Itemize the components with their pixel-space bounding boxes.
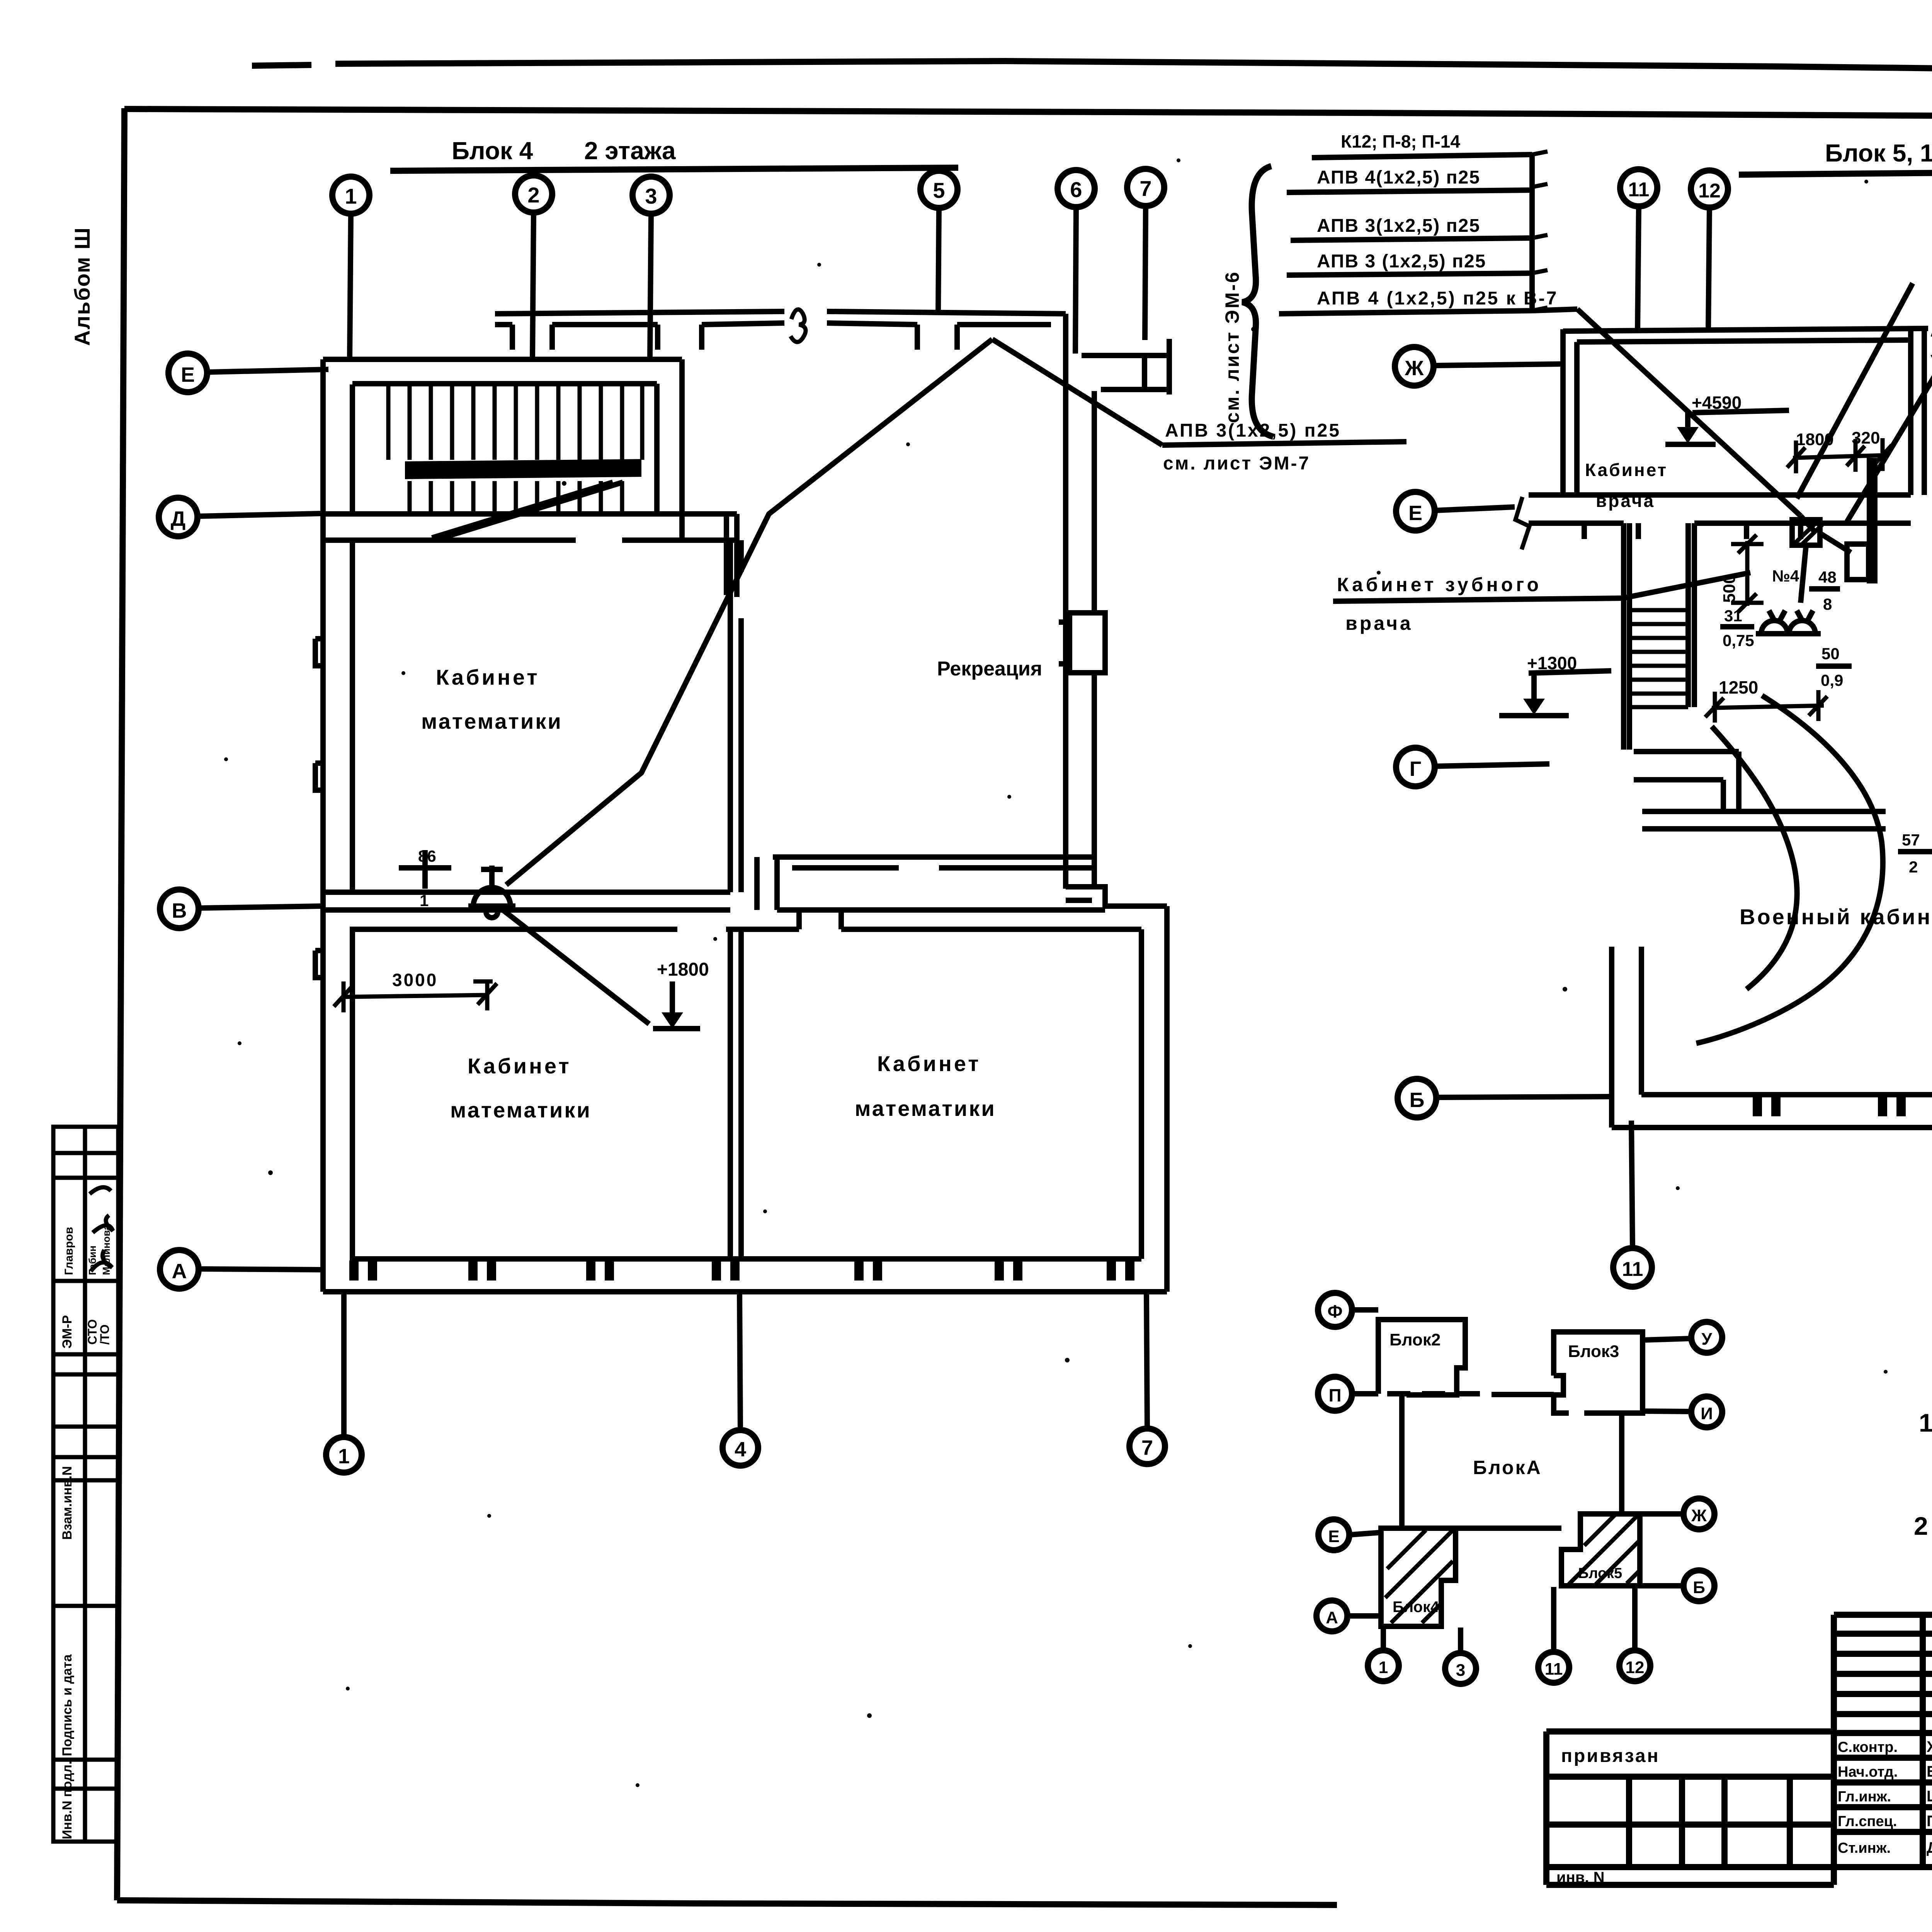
svg-text:математики: математики bbox=[450, 1098, 592, 1122]
recreation east wall bbox=[1066, 314, 1094, 889]
break squiggle on top wall bbox=[791, 310, 806, 342]
svg-text:Главров: Главров bbox=[63, 1227, 75, 1275]
svg-text:математики: математики bbox=[421, 709, 563, 733]
svg-text:7: 7 bbox=[1139, 176, 1151, 201]
axis circle 2 top bbox=[515, 175, 552, 213]
recreation bottom wall bbox=[773, 857, 1167, 906]
svg-text:11: 11 bbox=[1622, 1258, 1643, 1281]
feeder arrowheads bbox=[1532, 151, 1548, 311]
stairwell block walls bbox=[323, 359, 682, 541]
svg-text:У: У bbox=[1701, 1330, 1712, 1349]
svg-text:Кабинет: Кабинет bbox=[468, 1054, 571, 1078]
key block 4 hatched bbox=[1381, 1528, 1456, 1626]
axis circle A left bbox=[160, 1250, 199, 1289]
feeder line 2 bbox=[1287, 190, 1532, 192]
wire curve run B bbox=[1712, 726, 1797, 989]
svg-text:0,9: 0,9 bbox=[1821, 671, 1843, 689]
svg-text:Д: Д bbox=[171, 507, 185, 531]
svg-text:СТО: СТО bbox=[85, 1319, 99, 1345]
axis circle 11 bottom bbox=[1613, 1248, 1652, 1287]
axis circle 7 top bbox=[1127, 169, 1164, 206]
svg-text:Г: Г bbox=[1410, 757, 1422, 781]
stair flight hatch bbox=[388, 384, 642, 514]
axis circle E left bbox=[168, 354, 207, 392]
svg-text:2: 2 bbox=[527, 183, 539, 207]
key axis Ж bbox=[1684, 1498, 1714, 1529]
svg-text:Шилов: Шилов bbox=[1927, 1788, 1932, 1805]
svg-text:Кабинет зубного: Кабинет зубного bbox=[1337, 574, 1542, 595]
svg-text:№4: №4 bbox=[1772, 567, 1799, 585]
svg-text:1800: 1800 bbox=[1796, 430, 1834, 449]
svg-text:Ф: Ф bbox=[1327, 1301, 1342, 1321]
svg-text:математики: математики bbox=[855, 1096, 996, 1121]
feeder line 5 bbox=[1279, 309, 1577, 314]
stair landing rail bbox=[405, 459, 641, 479]
wire axis1 leader bbox=[350, 214, 351, 359]
axis circle Ж left bbox=[1395, 347, 1434, 386]
V axis walls bbox=[323, 892, 1141, 929]
axis circle Г left bbox=[1396, 748, 1435, 786]
axis circle 7 bottom bbox=[1129, 1429, 1165, 1464]
svg-text:К12; П-8; П-14: К12; П-8; П-14 bbox=[1341, 131, 1460, 151]
axis circle 3 top bbox=[633, 177, 670, 214]
svg-text:Кабинет: Кабинет bbox=[1585, 460, 1668, 480]
riser shaft box bbox=[1070, 613, 1105, 673]
doctors room west wall bbox=[1563, 329, 1577, 495]
key axis Е bbox=[1318, 1519, 1349, 1550]
left exterior wall bbox=[323, 359, 352, 1292]
svg-text:Холопова: Холопова bbox=[1927, 1738, 1932, 1755]
svg-text:привязан: привязан bbox=[1561, 1746, 1660, 1766]
svg-text:3: 3 bbox=[645, 184, 657, 208]
military room west wall bbox=[1612, 947, 1641, 1128]
bottom wall window pilasters bbox=[349, 1260, 1134, 1281]
svg-text:БлокА: БлокА bbox=[1473, 1457, 1542, 1478]
key dashed link bbox=[1387, 1394, 1554, 1395]
key axis 12 bottom bbox=[1619, 1650, 1650, 1681]
svg-text:Габин: Габин bbox=[87, 1245, 98, 1275]
svg-text:5: 5 bbox=[933, 178, 945, 202]
svg-text:Блок 5, 1 этаж.: Блок 5, 1 этаж. bbox=[1825, 139, 1932, 167]
svg-text:2. Расчетную схему питающих: 2. Расчетную схему питающих сетей bbox=[1914, 1512, 1932, 1540]
svg-text:П: П bbox=[1328, 1385, 1341, 1405]
svg-text:АПВ 4(1х2,5) п25: АПВ 4(1х2,5) п25 bbox=[1317, 167, 1480, 188]
svg-text:АПВ 3(1х2,5) п25: АПВ 3(1х2,5) п25 bbox=[1165, 420, 1341, 441]
svg-text:Подпись и дата: Подпись и дата bbox=[60, 1654, 75, 1756]
lamps pair lobby bbox=[1756, 611, 1821, 634]
wire leader 2 bbox=[1797, 283, 1913, 498]
key axis 3 bottom bbox=[1445, 1653, 1476, 1684]
key axis Б bbox=[1684, 1570, 1714, 1601]
wire curve run A bbox=[1696, 696, 1883, 1043]
lower partition between classrooms bbox=[730, 910, 841, 1259]
key block 2 bbox=[1378, 1320, 1465, 1395]
svg-text:Кабинет: Кабинет bbox=[436, 665, 540, 689]
svg-text:1. Пояснения к проекту и у: 1. Пояснения к проекту и условные bbox=[1919, 1408, 1932, 1437]
stair treads bbox=[1629, 610, 1688, 707]
partition recreation end bbox=[757, 857, 777, 910]
ink speckles bbox=[224, 158, 1932, 1787]
svg-text:см. лист ЭМ-6: см. лист ЭМ-6 bbox=[1221, 270, 1243, 423]
feeder line 4 bbox=[1287, 273, 1532, 275]
svg-text:Гл.инж.: Гл.инж. bbox=[1838, 1789, 1891, 1805]
left side stamp column bbox=[53, 1127, 118, 1842]
svg-text:Б: Б bbox=[1693, 1578, 1705, 1597]
axis circle 12 top bbox=[1691, 170, 1728, 207]
svg-text:+1800: +1800 bbox=[657, 959, 709, 980]
feeder bus vertical bbox=[1529, 155, 1535, 311]
svg-text:ЭМ-Р: ЭМ-Р bbox=[60, 1315, 75, 1349]
cabinet box lobby bbox=[1847, 544, 1869, 580]
svg-text:А: А bbox=[172, 1260, 187, 1283]
Г axis wall stair bottom bbox=[1634, 752, 1739, 811]
axis circle 5 top bbox=[920, 171, 957, 208]
svg-text:Блок5: Блок5 bbox=[1578, 1565, 1622, 1582]
feeder line 1 bbox=[1312, 155, 1532, 158]
junction box lobby bbox=[1792, 520, 1820, 545]
frame border top bbox=[124, 109, 1932, 119]
svg-text:Блок 4: Блок 4 bbox=[452, 137, 533, 165]
svg-text:11: 11 bbox=[1628, 179, 1650, 201]
feeder list brace bbox=[1242, 166, 1273, 437]
svg-text:500: 500 bbox=[1720, 575, 1739, 603]
svg-text:/ТО: /ТО bbox=[98, 1324, 112, 1345]
doctors room east wall bbox=[1911, 331, 1924, 495]
svg-text:Взам.инв.N: Взам.инв.N bbox=[60, 1466, 75, 1540]
svg-text:врача: врача bbox=[1345, 612, 1413, 634]
svg-text:0,75: 0,75 bbox=[1723, 631, 1754, 650]
key plan axis Ф bbox=[1318, 1293, 1352, 1327]
svg-text:В: В bbox=[172, 899, 187, 922]
svg-text:Блок4: Блок4 bbox=[1393, 1599, 1439, 1616]
svg-text:Е: Е bbox=[1408, 502, 1422, 525]
svg-text:8: 8 bbox=[1823, 595, 1832, 613]
key block 3 bbox=[1554, 1332, 1643, 1413]
key axis И bbox=[1691, 1396, 1722, 1427]
svg-text:Б: Б bbox=[1410, 1088, 1425, 1112]
svg-text:Инв.N подл.: Инв.N подл. bbox=[60, 1761, 75, 1839]
top corridor wall bbox=[495, 311, 1066, 325]
svg-text:АПВ 4 (1х2,5) п25 к В-7: АПВ 4 (1х2,5) п25 к В-7 bbox=[1317, 288, 1558, 309]
stair run diagonal bbox=[432, 482, 623, 538]
svg-text:И: И bbox=[1701, 1404, 1713, 1423]
frame border left bbox=[117, 108, 124, 1900]
svg-text:3: 3 bbox=[1456, 1661, 1465, 1680]
riser conduit bbox=[1869, 458, 1875, 583]
svg-text:см. лист ЭМ-7: см. лист ЭМ-7 bbox=[1163, 453, 1310, 474]
top wall block5 bbox=[1563, 328, 1932, 343]
svg-text:Ж: Ж bbox=[1691, 1506, 1707, 1525]
svg-text:Кабинет: Кабинет bbox=[877, 1051, 981, 1076]
title block left box bbox=[1546, 1731, 1834, 1885]
D axis wall (stair bottom) bbox=[323, 514, 737, 597]
svg-text:6: 6 bbox=[1070, 177, 1082, 202]
svg-text:Малинова: Малинова bbox=[100, 1225, 112, 1275]
svg-text:1: 1 bbox=[1379, 1658, 1388, 1677]
svg-text:50: 50 bbox=[1821, 645, 1840, 663]
svg-text:7: 7 bbox=[1141, 1436, 1153, 1459]
axis circle 6 top bbox=[1058, 170, 1095, 207]
svg-text:57: 57 bbox=[1902, 831, 1920, 849]
wire leader to lobby bbox=[1847, 284, 1932, 522]
key block A outline bbox=[1381, 1395, 1622, 1528]
svg-text:Блок2: Блок2 bbox=[1389, 1330, 1440, 1349]
lower rooms top wall bbox=[1642, 811, 1932, 829]
svg-text:Нач.отд.: Нач.отд. bbox=[1838, 1764, 1898, 1780]
svg-text:инв. N: инв. N bbox=[1556, 1869, 1604, 1886]
axis circle Е left bbox=[1396, 492, 1435, 531]
partition room/recreation bbox=[730, 540, 741, 892]
svg-text:48: 48 bbox=[1818, 568, 1837, 586]
svg-text:12: 12 bbox=[1626, 1658, 1645, 1677]
lamp fixture bbox=[468, 866, 515, 918]
bottom wall pilasters block5 bbox=[1753, 1096, 1932, 1116]
bottom exterior wall block5 bbox=[1612, 1095, 1932, 1128]
axis circle 11 top bbox=[1620, 169, 1657, 206]
svg-text:31: 31 bbox=[1724, 607, 1742, 625]
title block right box bbox=[1546, 1609, 1932, 1867]
svg-text:Е: Е bbox=[181, 363, 195, 386]
stair rails bbox=[1624, 523, 1694, 750]
feeder line 3 bbox=[1291, 238, 1532, 240]
E axis wall bbox=[1529, 495, 1911, 523]
svg-text:3000: 3000 bbox=[392, 970, 438, 990]
axis circle 1 top bbox=[332, 177, 369, 214]
wall pilasters left bbox=[315, 639, 325, 978]
svg-text:Альбом Ш: Альбом Ш bbox=[70, 227, 94, 346]
key axis 1 bottom bbox=[1368, 1650, 1399, 1681]
wire lamp to mark bbox=[500, 908, 649, 1024]
svg-text:1: 1 bbox=[345, 184, 357, 208]
wire lighting run bbox=[506, 339, 992, 885]
svg-text:Ст.инж.: Ст.инж. bbox=[1838, 1840, 1891, 1856]
axis circle D left bbox=[159, 498, 197, 536]
svg-text:1: 1 bbox=[420, 891, 429, 910]
svg-text:АПВ 3 (1х2,5) п25: АПВ 3 (1х2,5) п25 bbox=[1317, 251, 1486, 272]
left stamp signatures (scribbles) bbox=[90, 1187, 113, 1271]
lower right room east wall bbox=[1141, 906, 1167, 1292]
svg-text:С.контр.: С.контр. bbox=[1838, 1739, 1898, 1755]
axis circle 1 bottom bbox=[326, 1437, 362, 1473]
key block 5 hatched bbox=[1561, 1514, 1640, 1586]
key axis А bbox=[1316, 1600, 1347, 1631]
wire branch from corridor wall bbox=[992, 339, 1162, 445]
axis circle V left bbox=[160, 889, 199, 928]
svg-text:Дегтярь: Дегтярь bbox=[1927, 1839, 1932, 1856]
sheet top edge line bbox=[252, 61, 1932, 77]
svg-text:АПВ 3(1х2,5) п25: АПВ 3(1х2,5) п25 bbox=[1317, 216, 1480, 236]
door jambs E wall bbox=[1584, 523, 1801, 539]
title block central signature table bbox=[1834, 1609, 1932, 1885]
wire feeder to plan bbox=[1577, 309, 1801, 516]
svg-text:4: 4 bbox=[735, 1438, 746, 1461]
svg-text:Рекреация: Рекреация bbox=[937, 658, 1042, 680]
svg-text:12: 12 bbox=[1698, 180, 1721, 202]
svg-text:А: А bbox=[1326, 1608, 1338, 1627]
svg-text:Гл.спец.: Гл.спец. bbox=[1838, 1813, 1897, 1830]
key axis П bbox=[1318, 1377, 1352, 1411]
axis circle Б left bbox=[1398, 1079, 1436, 1117]
key axis 11 bottom bbox=[1538, 1652, 1569, 1683]
svg-text:1: 1 bbox=[338, 1445, 350, 1468]
svg-text:11: 11 bbox=[1545, 1660, 1563, 1679]
door jambs top corridor bbox=[512, 325, 957, 350]
svg-text:Попова: Попова bbox=[1927, 1813, 1932, 1830]
svg-text:Е: Е bbox=[1328, 1527, 1339, 1546]
svg-text:1250: 1250 bbox=[1719, 677, 1758, 697]
key axis У bbox=[1691, 1322, 1722, 1353]
svg-text:Ж: Ж bbox=[1405, 357, 1424, 380]
svg-text:Военный кабинет: Военный кабинет bbox=[1740, 905, 1932, 929]
svg-text:Блок3: Блок3 bbox=[1568, 1342, 1619, 1361]
bottom exterior wall bbox=[323, 1259, 1167, 1292]
svg-text:2: 2 bbox=[1909, 858, 1918, 876]
svg-text:Белов: Белов bbox=[1927, 1763, 1932, 1780]
svg-text:2 этажа: 2 этажа bbox=[584, 137, 676, 165]
frame border bottom bbox=[117, 1900, 1337, 1905]
axis circle 4 bottom bbox=[723, 1430, 758, 1466]
corridor end alcove walls bbox=[1082, 339, 1169, 395]
axis break symbol bbox=[1515, 497, 1529, 549]
wire lobby splices bbox=[1801, 516, 1851, 603]
